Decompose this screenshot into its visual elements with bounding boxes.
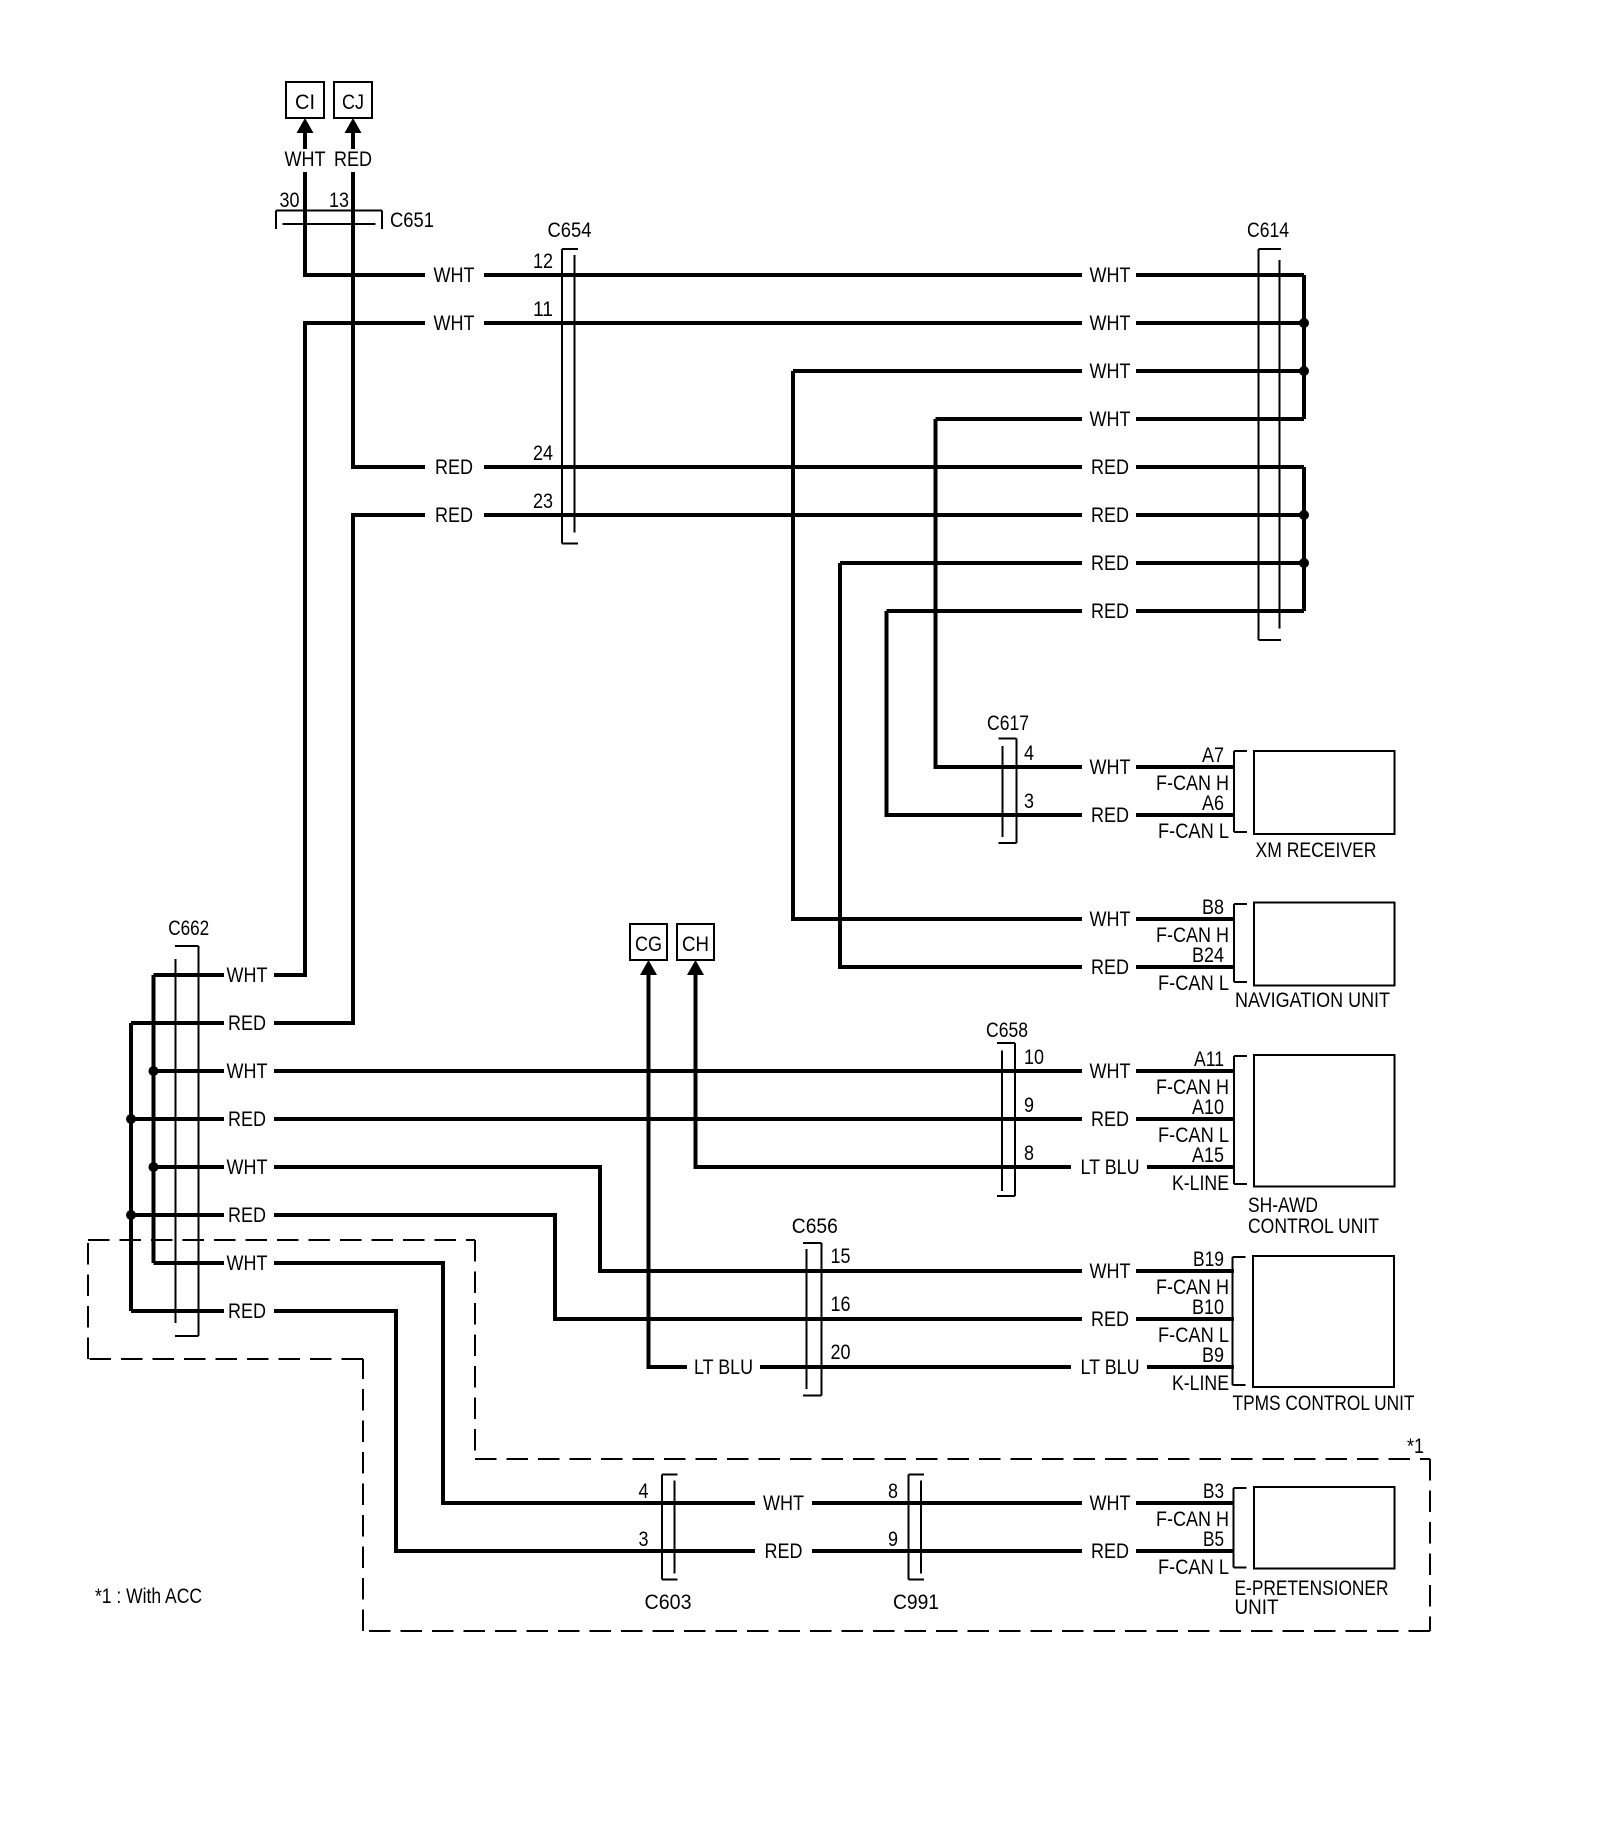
bus joining WHT rows left of C662 bbox=[152, 975, 156, 1263]
svg-text:A11: A11 bbox=[1194, 1048, 1224, 1071]
connector C603 bbox=[662, 1475, 678, 1580]
connector C651 bbox=[276, 211, 382, 230]
svg-text:LT BLU: LT BLU bbox=[1081, 1356, 1140, 1379]
wire WHT C662 row5 down to C656 pin15 / TPMS B19 bbox=[154, 1167, 1235, 1271]
E-PRETENSIONER UNIT box bbox=[1254, 1487, 1395, 1569]
wire RED C662 to C658 pin9 / SH-AWD A10 bbox=[131, 1117, 1234, 1121]
svg-text:WHT: WHT bbox=[1090, 312, 1131, 335]
svg-text:XM RECEIVER: XM RECEIVER bbox=[1256, 839, 1377, 862]
connector C654 bbox=[562, 249, 578, 544]
svg-text:WHT: WHT bbox=[1090, 756, 1131, 779]
svg-text:30: 30 bbox=[280, 189, 300, 212]
svg-text:A6: A6 bbox=[1202, 792, 1224, 815]
arrowhead to CJ bbox=[345, 118, 362, 133]
svg-text:K-LINE: K-LINE bbox=[1172, 1372, 1229, 1395]
svg-text:TPMS CONTROL UNIT: TPMS CONTROL UNIT bbox=[1233, 1392, 1415, 1415]
connector ref box CJ bbox=[334, 82, 372, 118]
junction dot C662 WHT bus row5 bbox=[149, 1162, 159, 1172]
connector bracket at NAVIGATION UNIT bbox=[1234, 904, 1247, 982]
svg-text:F-CAN L: F-CAN L bbox=[1158, 1324, 1229, 1347]
svg-text:RED: RED bbox=[1091, 600, 1129, 623]
svg-text:12: 12 bbox=[533, 250, 553, 273]
svg-text:NAVIGATION UNIT: NAVIGATION UNIT bbox=[1235, 989, 1390, 1012]
svg-text:WHT: WHT bbox=[285, 148, 326, 171]
svg-text:RED: RED bbox=[228, 1012, 266, 1035]
wire RED row C614 to C617 pin3 / XM RECEIVER A6 bbox=[887, 611, 1305, 815]
svg-text:WHT: WHT bbox=[1090, 264, 1131, 287]
TPMS CONTROL UNIT box bbox=[1253, 1256, 1394, 1387]
svg-text:9: 9 bbox=[1024, 1094, 1034, 1117]
svg-text:RED: RED bbox=[228, 1300, 266, 1323]
svg-text:WHT: WHT bbox=[763, 1492, 804, 1515]
svg-text:WHT: WHT bbox=[1090, 1492, 1131, 1515]
svg-text:20: 20 bbox=[831, 1341, 851, 1364]
connector ref box CG bbox=[630, 924, 667, 960]
bus joining WHT rows right of C614 bbox=[1302, 275, 1306, 419]
svg-text:RED: RED bbox=[334, 148, 372, 171]
svg-text:9: 9 bbox=[888, 1528, 898, 1551]
wire WHT C662 to C658 pin10 / SH-AWD A11 bbox=[154, 1069, 1235, 1073]
svg-text:B19: B19 bbox=[1193, 1248, 1224, 1271]
svg-text:WHT: WHT bbox=[1090, 1060, 1131, 1083]
svg-text:WHT: WHT bbox=[227, 1252, 268, 1275]
svg-text:F-CAN L: F-CAN L bbox=[1158, 1124, 1229, 1147]
svg-text:B8: B8 bbox=[1202, 896, 1224, 919]
svg-text:RED: RED bbox=[1091, 456, 1129, 479]
svg-text:C654: C654 bbox=[548, 219, 592, 242]
connector bracket at TPMS CONTROL UNIT bbox=[1233, 1257, 1246, 1385]
wire LT BLU from CG to C656 pin20 bbox=[649, 975, 1235, 1367]
wire WHT row C614 to C617 pin4 / XM RECEIVER A7 bbox=[936, 419, 1305, 767]
svg-text:*1: *1 bbox=[1407, 1435, 1424, 1458]
connector C614 bbox=[1259, 249, 1282, 640]
junction dot C662 RED bus row6 bbox=[126, 1210, 136, 1220]
connector C617 bbox=[999, 739, 1017, 844]
svg-text:3: 3 bbox=[1024, 790, 1034, 813]
svg-text:WHT: WHT bbox=[434, 264, 475, 287]
svg-text:WHT: WHT bbox=[1090, 908, 1131, 931]
svg-text:WHT: WHT bbox=[434, 312, 475, 335]
svg-text:16: 16 bbox=[831, 1293, 851, 1316]
wire WHT row C614 to NAVIGATION UNIT B8 bbox=[793, 371, 1304, 919]
svg-text:F-CAN H: F-CAN H bbox=[1156, 924, 1229, 947]
wire WHT C662 row7 down to C603 pin4 bbox=[154, 1263, 1234, 1503]
wire LT BLU from CH to C658 pin8 bbox=[696, 975, 1235, 1167]
svg-text:WHT: WHT bbox=[227, 1060, 268, 1083]
svg-text:K-LINE: K-LINE bbox=[1172, 1172, 1229, 1195]
svg-text:C614: C614 bbox=[1247, 219, 1289, 242]
svg-text:*1 : With ACC: *1 : With ACC bbox=[95, 1585, 202, 1608]
svg-text:11: 11 bbox=[533, 298, 553, 321]
wire RED row C654 pin23 to C614 and down to C662 bbox=[131, 515, 1304, 1023]
svg-text:RED: RED bbox=[1091, 552, 1129, 575]
arrowhead to CG bbox=[640, 960, 657, 975]
junction dot C662 RED bus row4 bbox=[126, 1114, 136, 1124]
svg-text:SH-AWD: SH-AWD bbox=[1248, 1194, 1318, 1217]
svg-text:WHT: WHT bbox=[227, 964, 268, 987]
junction dot WHT bus row3 bbox=[1299, 366, 1309, 376]
svg-text:C651: C651 bbox=[390, 209, 434, 232]
svg-text:B9: B9 bbox=[1202, 1344, 1224, 1367]
arrowhead to CH bbox=[687, 960, 704, 975]
svg-text:8: 8 bbox=[888, 1480, 898, 1503]
wire CI pin30 / WHT row to C654 pin12 and C614 bbox=[305, 132, 1304, 275]
dashed With-ACC option boundary bbox=[88, 1240, 1430, 1631]
junction dot WHT bus row2 bbox=[1299, 318, 1309, 328]
XM RECEIVER box bbox=[1254, 751, 1395, 834]
NAVIGATION UNIT box bbox=[1254, 903, 1395, 986]
svg-text:RED: RED bbox=[1091, 1308, 1129, 1331]
svg-text:LT BLU: LT BLU bbox=[694, 1356, 753, 1379]
svg-text:C617: C617 bbox=[987, 712, 1029, 735]
svg-text:CH: CH bbox=[682, 933, 709, 956]
svg-text:15: 15 bbox=[831, 1245, 851, 1268]
svg-text:B10: B10 bbox=[1192, 1296, 1224, 1319]
bus joining RED rows left of C662 bbox=[129, 1023, 133, 1311]
svg-text:RED: RED bbox=[228, 1204, 266, 1227]
svg-text:B24: B24 bbox=[1192, 944, 1224, 967]
connector C656 bbox=[803, 1243, 822, 1396]
connector ref box CI bbox=[286, 82, 324, 118]
svg-text:A15: A15 bbox=[1192, 1144, 1224, 1167]
wire CJ pin13 / RED row to C654 pin24 and C614 bbox=[353, 132, 1304, 467]
connector bracket at XM RECEIVER bbox=[1234, 751, 1247, 832]
bus joining RED rows right of C614 bbox=[1302, 467, 1306, 611]
svg-text:F-CAN H: F-CAN H bbox=[1156, 1276, 1229, 1299]
svg-text:C662: C662 bbox=[168, 917, 209, 940]
svg-text:CI: CI bbox=[295, 91, 315, 114]
svg-text:WHT: WHT bbox=[227, 1156, 268, 1179]
svg-text:B5: B5 bbox=[1203, 1528, 1224, 1551]
svg-text:13: 13 bbox=[329, 189, 349, 212]
svg-text:RED: RED bbox=[1091, 1108, 1129, 1131]
svg-text:WHT: WHT bbox=[1090, 1260, 1131, 1283]
connector C662 bbox=[175, 946, 199, 1336]
svg-text:F-CAN L: F-CAN L bbox=[1158, 972, 1229, 995]
svg-text:UNIT: UNIT bbox=[1235, 1596, 1279, 1619]
svg-text:C658: C658 bbox=[986, 1019, 1028, 1042]
svg-text:LT BLU: LT BLU bbox=[1081, 1156, 1140, 1179]
connector C991 bbox=[909, 1475, 925, 1580]
connector ref box CH bbox=[677, 924, 714, 960]
svg-text:RED: RED bbox=[765, 1540, 803, 1563]
svg-text:RED: RED bbox=[1091, 1540, 1129, 1563]
svg-text:WHT: WHT bbox=[1090, 360, 1131, 383]
svg-text:F-CAN L: F-CAN L bbox=[1158, 820, 1229, 843]
svg-text:23: 23 bbox=[533, 490, 553, 513]
svg-text:A10: A10 bbox=[1192, 1096, 1224, 1119]
svg-text:8: 8 bbox=[1024, 1142, 1034, 1165]
wire WHT row C654 pin11 to C614 and down to C662 bbox=[154, 323, 1305, 975]
svg-text:C991: C991 bbox=[893, 1591, 939, 1614]
svg-text:RED: RED bbox=[435, 504, 473, 527]
svg-text:F-CAN H: F-CAN H bbox=[1156, 1508, 1229, 1531]
svg-text:RED: RED bbox=[1091, 804, 1129, 827]
junction dot RED bus row7 bbox=[1299, 558, 1309, 568]
svg-text:WHT: WHT bbox=[1090, 408, 1131, 431]
svg-text:RED: RED bbox=[1091, 504, 1129, 527]
wire RED C662 row8 down to C603 pin3 bbox=[131, 1311, 1234, 1551]
junction dot RED bus row6 bbox=[1299, 510, 1309, 520]
svg-text:10: 10 bbox=[1024, 1046, 1044, 1069]
svg-text:3: 3 bbox=[639, 1528, 649, 1551]
svg-text:A7: A7 bbox=[1202, 744, 1224, 767]
svg-text:4: 4 bbox=[1024, 742, 1034, 765]
connector bracket at E-PRETENSIONER UNIT bbox=[1234, 1488, 1247, 1568]
svg-text:C603: C603 bbox=[645, 1591, 692, 1614]
connector bracket at SH-AWD CONTROL UNIT bbox=[1234, 1056, 1247, 1184]
svg-text:F-CAN H: F-CAN H bbox=[1156, 772, 1229, 795]
svg-text:C656: C656 bbox=[792, 1215, 838, 1238]
svg-text:24: 24 bbox=[533, 442, 553, 465]
svg-text:F-CAN H: F-CAN H bbox=[1156, 1076, 1229, 1099]
arrowhead to CI bbox=[297, 118, 314, 133]
svg-text:CJ: CJ bbox=[342, 91, 364, 114]
svg-text:CG: CG bbox=[635, 933, 662, 956]
SH-AWD CONTROL UNIT box bbox=[1254, 1055, 1395, 1187]
junction dot C662 WHT bus row3 bbox=[149, 1066, 159, 1076]
svg-text:4: 4 bbox=[639, 1480, 649, 1503]
svg-text:RED: RED bbox=[228, 1108, 266, 1131]
svg-text:F-CAN L: F-CAN L bbox=[1158, 1556, 1229, 1579]
wire RED C662 row6 down to C656 pin16 / TPMS B10 bbox=[131, 1215, 1234, 1319]
connector C658 bbox=[997, 1043, 1015, 1196]
svg-text:B3: B3 bbox=[1203, 1480, 1224, 1503]
svg-text:RED: RED bbox=[1091, 956, 1129, 979]
svg-text:CONTROL UNIT: CONTROL UNIT bbox=[1248, 1215, 1379, 1238]
wire RED row C614 to NAVIGATION UNIT B24 bbox=[840, 563, 1304, 967]
svg-text:RED: RED bbox=[435, 456, 473, 479]
